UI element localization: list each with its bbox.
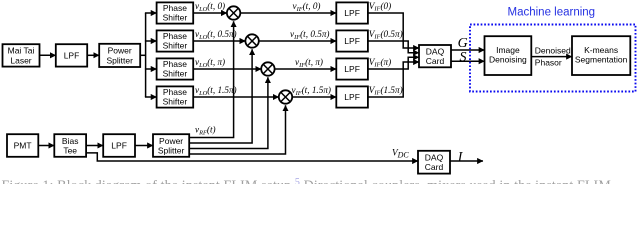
wire PS2 to mixer 2 <box>193 40 245 42</box>
wire to phase shifter 3 <box>145 68 157 70</box>
wire I output <box>450 160 483 162</box>
svg-text:Bias: Bias <box>62 136 79 146</box>
svg-text:LPF: LPF <box>111 140 127 150</box>
wire RF feed to mixer 3 <box>189 77 268 148</box>
svg-text:LPF: LPF <box>344 8 360 18</box>
wire LPF4 to DAQ <box>368 62 419 97</box>
block Phase Shifter 4 <box>157 86 194 107</box>
block Phase Shifter 3 <box>157 58 194 79</box>
svg-text:Shifter: Shifter <box>163 97 188 107</box>
mixer 4 <box>279 90 292 103</box>
svg-text:Power: Power <box>108 46 132 56</box>
svg-text:vIF(t, 0.5π): vIF(t, 0.5π) <box>290 29 329 41</box>
svg-text:LPF: LPF <box>344 64 360 74</box>
mixer 2 <box>245 34 258 47</box>
svg-text:Phase: Phase <box>163 87 187 97</box>
svg-text:Splitter: Splitter <box>106 55 133 65</box>
svg-text:LPF: LPF <box>344 92 360 102</box>
wire LPF1 to DAQ <box>368 13 419 48</box>
wire S output <box>451 60 485 62</box>
wire PS3 to mixer 3 <box>193 68 261 70</box>
svg-text:Phasor: Phasor <box>535 58 562 68</box>
block LPF IF 1 <box>336 2 368 23</box>
block K-means Segmentation <box>572 36 630 75</box>
wire LPF to Power Splitter <box>87 54 99 56</box>
block Image Denoising <box>485 36 532 75</box>
svg-text:Phase: Phase <box>163 31 187 41</box>
svg-text:LPF: LPF <box>64 50 80 60</box>
svg-text:vIF(t, 0): vIF(t, 0) <box>293 1 321 13</box>
block Mai Tai Laser <box>3 44 40 66</box>
wire G output <box>451 49 485 51</box>
wire Bias Tee to LPF bottom <box>86 145 103 147</box>
svg-text:Segmentation: Segmentation <box>575 55 628 65</box>
block DAQ Card bottom <box>418 151 450 174</box>
machine learning dashed box <box>470 25 636 92</box>
wire LPF2 to DAQ <box>368 41 419 53</box>
mixer 1 <box>227 6 240 19</box>
wire mixer4 to LPF4 <box>292 96 336 98</box>
svg-text:DAQ: DAQ <box>425 152 444 162</box>
svg-text:PMT: PMT <box>14 140 32 150</box>
svg-text:Figure 1: Block diagram of the: Figure 1: Block diagram of the instant F… <box>2 177 612 184</box>
svg-text:Machine learning: Machine learning <box>508 6 596 18</box>
wire LPF3 to DAQ <box>368 57 419 69</box>
wire RF feed to mixer 2 <box>189 49 252 143</box>
svg-text:vLO(t, 0.5π): vLO(t, 0.5π) <box>195 29 237 41</box>
wire mixer2 to LPF2 <box>259 40 337 42</box>
wire splitter fanout trunk <box>140 13 145 97</box>
wire LPF to Power Splitter bottom <box>135 145 153 147</box>
wire PMT to Bias Tee <box>38 145 54 147</box>
svg-text:VIF(0): VIF(0) <box>369 1 391 13</box>
block PMT <box>7 134 38 157</box>
wire to phase shifter 4 <box>145 96 157 98</box>
block LPF IF 4 <box>336 86 368 107</box>
svg-text:Phase: Phase <box>163 3 187 13</box>
svg-text:vIF(t, 1.5π): vIF(t, 1.5π) <box>292 85 331 97</box>
svg-text:Denoised: Denoised <box>535 45 571 55</box>
svg-text:Splitter: Splitter <box>158 146 185 156</box>
block Power Splitter top <box>99 44 140 67</box>
block LPF top <box>56 44 87 66</box>
wire DC path to DAQ bottom <box>86 153 418 161</box>
wire denoised phasor <box>531 56 572 58</box>
wire RF feed to mixer 1 <box>189 21 233 137</box>
svg-text:K-means: K-means <box>584 45 618 55</box>
block LPF IF 3 <box>336 58 368 79</box>
wire RF feed to mixer 4 <box>189 105 285 154</box>
svg-text:Laser: Laser <box>10 55 31 65</box>
block Bias Tee <box>54 134 86 157</box>
block DAQ Card top <box>419 45 451 67</box>
wire MaiTai to LPF <box>40 54 56 56</box>
svg-text:Phase: Phase <box>163 59 187 69</box>
block Power Splitter bottom <box>153 134 189 157</box>
svg-text:S: S <box>460 50 467 65</box>
svg-text:I: I <box>457 150 464 165</box>
svg-text:VIF(π): VIF(π) <box>369 57 391 69</box>
svg-text:Power: Power <box>159 136 183 146</box>
svg-text:vLO(t, 0): vLO(t, 0) <box>195 1 225 13</box>
svg-text:vLO(t, π): vLO(t, π) <box>195 57 225 69</box>
block Phase Shifter 1 <box>157 2 194 23</box>
wire mixer3 to LPF3 <box>275 68 337 70</box>
svg-text:Mai Tai: Mai Tai <box>8 46 35 56</box>
block LPF IF 2 <box>336 30 368 51</box>
svg-text:Shifter: Shifter <box>163 13 188 23</box>
block Phase Shifter 2 <box>157 30 194 51</box>
wire to phase shifter 2 <box>145 40 157 42</box>
svg-text:Tee: Tee <box>63 146 77 156</box>
svg-text:vLO(t, 1.5π): vLO(t, 1.5π) <box>195 85 237 97</box>
svg-text:LPF: LPF <box>344 36 360 46</box>
svg-text:G: G <box>458 36 468 51</box>
svg-text:Card: Card <box>426 56 445 66</box>
svg-text:vIF(t, π): vIF(t, π) <box>295 57 323 69</box>
wire PS4 to mixer 4 <box>193 96 279 98</box>
wire to phase shifter 1 <box>145 12 157 14</box>
svg-text:Shifter: Shifter <box>163 69 188 79</box>
svg-text:Image: Image <box>496 45 520 55</box>
svg-text:VIF(1.5π): VIF(1.5π) <box>369 85 403 97</box>
svg-text:Denoising: Denoising <box>489 55 527 65</box>
mixer 3 <box>261 62 274 75</box>
svg-text:DAQ: DAQ <box>426 46 445 56</box>
block LPF bottom <box>103 134 135 157</box>
label Denoised Phasor <box>535 45 571 67</box>
svg-text:VDC: VDC <box>392 147 409 159</box>
svg-text:Shifter: Shifter <box>163 41 188 51</box>
svg-text:VIF(0.5π): VIF(0.5π) <box>369 29 403 41</box>
svg-text:vRF(t): vRF(t) <box>195 125 216 137</box>
wire PS1 to mixer 1 <box>193 12 227 14</box>
svg-text:Card: Card <box>425 162 444 172</box>
wire mixer1 to LPF1 <box>240 12 336 14</box>
